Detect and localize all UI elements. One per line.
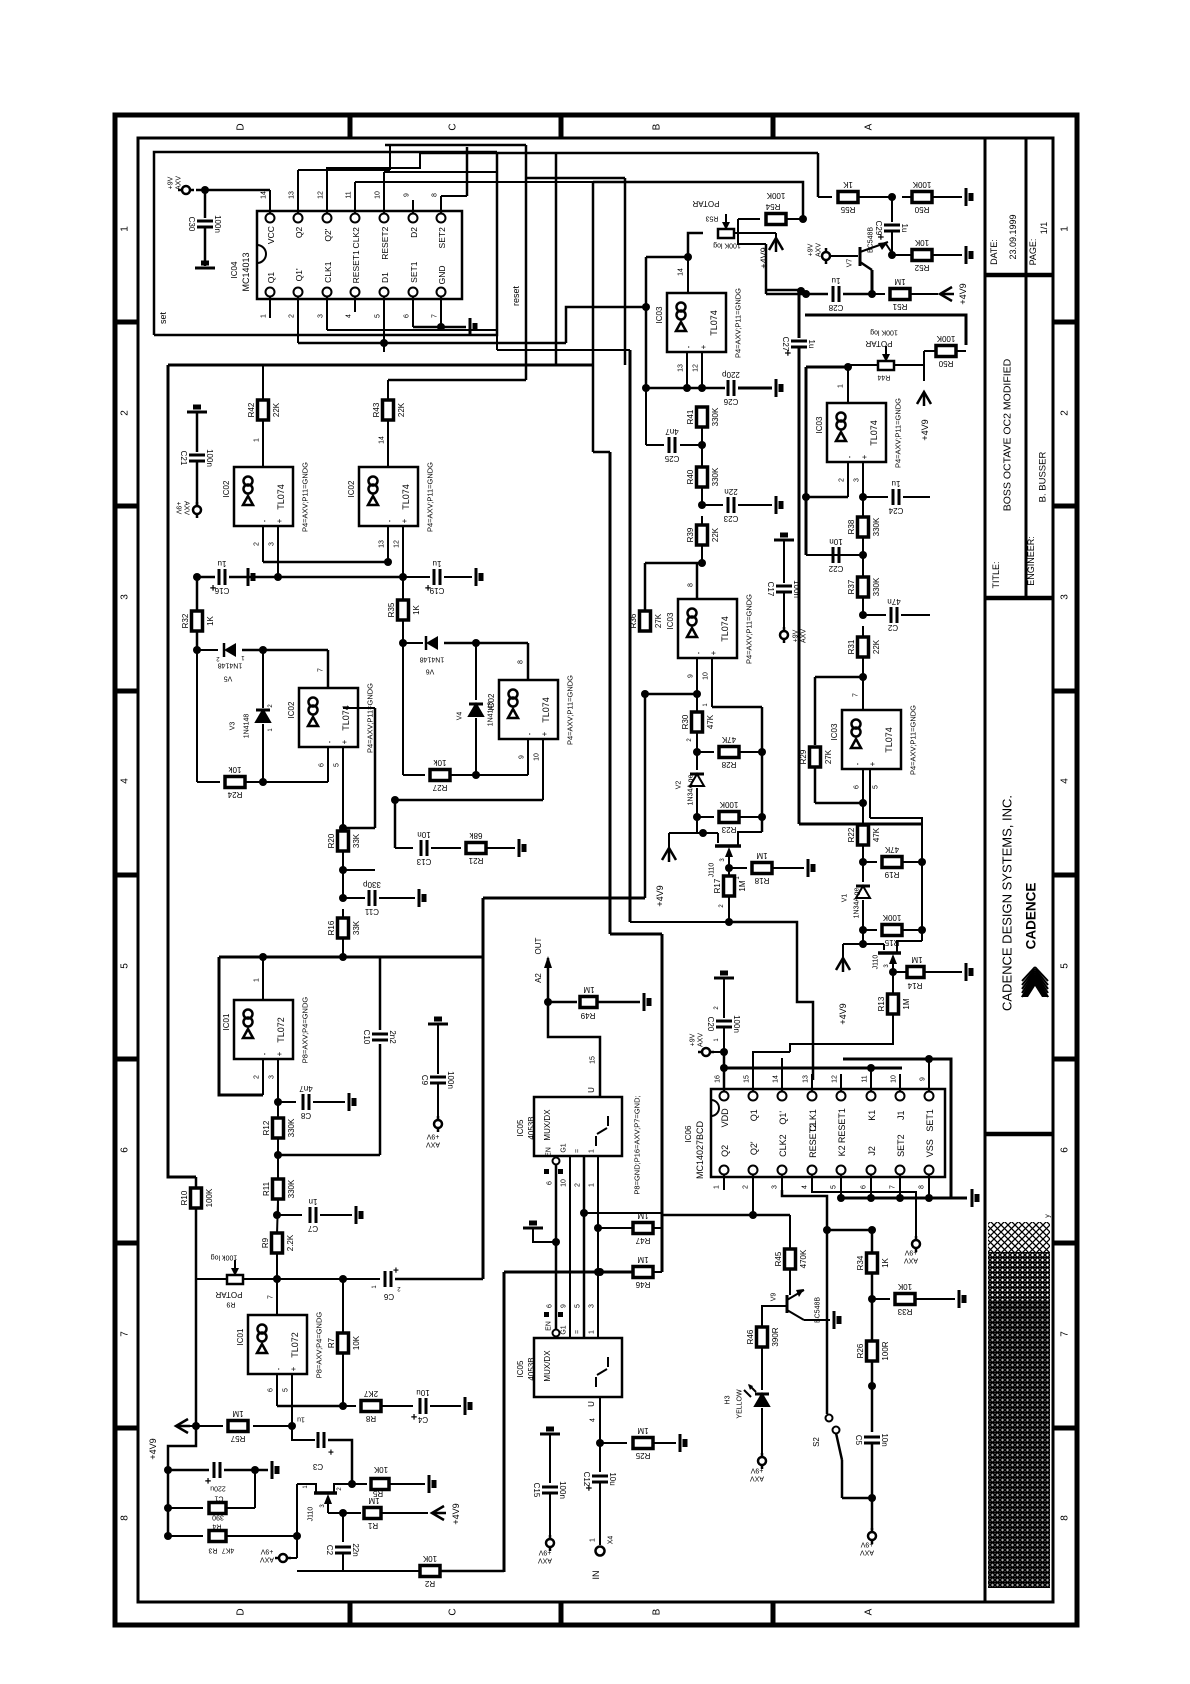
wire pin8 SET2 up: [440, 196, 442, 200]
op-amp IC02: [234, 467, 293, 526]
ground: [807, 859, 810, 877]
zone tick left: [115, 1241, 138, 1246]
svg-text:220p: 220p: [722, 370, 740, 379]
svg-text:1u: 1u: [218, 559, 227, 568]
svg-text:9: 9: [518, 755, 525, 759]
ground: [523, 1227, 543, 1230]
svg-text:CLK1: CLK1: [323, 261, 333, 283]
svg-text:+4V9: +4V9: [958, 283, 968, 304]
wire base V9 to R46: [762, 1306, 787, 1326]
svg-text:330K: 330K: [711, 407, 720, 426]
svg-text:2: 2: [253, 542, 260, 546]
svg-text:7: 7: [317, 668, 324, 672]
capacitor C23: [727, 497, 730, 513]
svg-text:6: 6: [546, 1304, 553, 1308]
capacitor C4: [419, 1398, 422, 1414]
svg-text:1M: 1M: [232, 1409, 243, 1418]
wire IC03c pin1: [847, 368, 849, 403]
svg-text:330K: 330K: [287, 1118, 296, 1137]
ground: [540, 1433, 560, 1436]
IC06 pin 3 CLK2: [778, 1166, 787, 1175]
svg-text:SET1: SET1: [925, 1109, 935, 1132]
svg-text:C8: C8: [300, 1111, 311, 1120]
svg-text:4K7: 4K7: [222, 1547, 235, 1554]
resistor R46: [633, 1267, 653, 1278]
svg-text:330p: 330p: [363, 880, 381, 889]
svg-text:R35: R35: [387, 602, 396, 617]
wire RESET2 to +9V: [812, 1190, 916, 1240]
wire J110b source to R14: [889, 968, 897, 976]
svg-text:+: +: [860, 454, 869, 459]
svg-text:6: 6: [267, 1388, 274, 1392]
svg-text:13: 13: [288, 191, 295, 199]
capacitor C16 node: [197, 576, 215, 579]
IC04 pin 8 SET2: [437, 214, 446, 223]
svg-text:4: 4: [801, 1185, 808, 1189]
svg-text:+9V: +9V: [260, 1548, 273, 1555]
svg-text:14: 14: [378, 436, 385, 444]
svg-text:TL074: TL074: [884, 727, 894, 753]
svg-text:6: 6: [546, 1181, 553, 1185]
wire pin3 CLK1 down: [326, 312, 328, 330]
svg-text:100K log: 100K log: [713, 242, 741, 249]
svg-text:Q2: Q2: [720, 1145, 730, 1157]
svg-text:10u: 10u: [608, 1472, 617, 1485]
ground: [518, 839, 521, 857]
svg-text:C24: C24: [888, 506, 903, 515]
IC02a pins 2 3: [262, 526, 264, 562]
svg-text:1K: 1K: [206, 615, 215, 625]
resistor R41: [697, 407, 708, 427]
svg-text:R57: R57: [230, 1434, 245, 1443]
op-amp IC02: [499, 680, 558, 739]
svg-text:DATE:: DATE:: [989, 239, 999, 265]
svg-text:RESET2: RESET2: [808, 1123, 818, 1158]
svg-text:22K: 22K: [397, 402, 406, 417]
svg-text:9: 9: [687, 674, 694, 678]
svg-text:BC548B: BC548B: [814, 1297, 821, 1323]
svg-text:1u: 1u: [297, 1416, 305, 1423]
svg-text:P4=AXV;P11=GNDG: P4=AXV;P11=GNDG: [734, 288, 743, 358]
resistor R11: [273, 1179, 284, 1199]
ground: [428, 1023, 448, 1026]
resistor R20: [338, 831, 349, 851]
power +9V under bus: [915, 1198, 917, 1240]
svg-text:6: 6: [853, 785, 860, 789]
wire IC03d pin7: [862, 677, 864, 710]
wire pin12 Q2' top link: [327, 153, 420, 200]
node rect1 top: [193, 646, 201, 654]
svg-text:R31: R31: [847, 639, 856, 654]
svg-text:R30: R30: [681, 714, 690, 729]
svg-text:1u: 1u: [900, 224, 909, 233]
svg-text:AXV: AXV: [697, 1033, 704, 1047]
svg-text:100R: 100R: [881, 1341, 890, 1360]
IC06 pin 6 J2: [867, 1166, 876, 1175]
capacitor C1: [213, 1462, 216, 1478]
svg-text:5: 5: [1060, 963, 1071, 969]
svg-text:C15: C15: [532, 1483, 541, 1498]
svg-text:+: +: [425, 581, 431, 593]
resistor R32: [192, 611, 203, 631]
ground: [679, 1434, 682, 1452]
diode: [690, 774, 704, 786]
wire to C13: [394, 800, 397, 848]
svg-text:C1: C1: [214, 1495, 223, 1502]
svg-text:1M: 1M: [637, 1426, 648, 1435]
resistor R31: [858, 637, 869, 657]
capacitor C11: [368, 890, 371, 906]
svg-text:330K: 330K: [872, 577, 881, 596]
svg-text:5: 5: [872, 785, 879, 789]
pot R53 network: [688, 233, 703, 257]
power +9V AXV: [915, 1236, 918, 1252]
resistor R7: [338, 1333, 349, 1353]
svg-text:+9V: +9V: [904, 1249, 917, 1256]
svg-text:YELLOW: YELLOW: [736, 1389, 743, 1419]
resistor R54 branch: [738, 218, 760, 220]
wire pin5 right: [870, 818, 922, 862]
zone tick bottom: [771, 1602, 776, 1625]
svg-text:1: 1: [253, 438, 260, 442]
svg-text:R20: R20: [327, 833, 336, 848]
svg-text:B. BUSSER: B. BUSSER: [1037, 452, 1048, 503]
resistor R20: [342, 828, 344, 830]
wire y388 chain: [646, 387, 725, 390]
IC04 pin 4 RESET1: [351, 288, 360, 297]
IC06 pin 16 VDD: [720, 1092, 729, 1101]
wire y957 bus: [219, 956, 483, 959]
svg-text:100n: 100n: [446, 1071, 455, 1089]
svg-text:C7: C7: [307, 1224, 318, 1233]
svg-text:+4V9: +4V9: [655, 885, 665, 906]
svg-text:CADENCE: CADENCE: [1024, 883, 1039, 950]
IC02c pins 6 5: [327, 747, 329, 782]
svg-text:9: 9: [403, 193, 410, 197]
svg-text:+9V: +9V: [860, 1541, 873, 1548]
svg-text:7: 7: [852, 693, 859, 697]
svg-text:8: 8: [431, 193, 438, 197]
resistor R50b: [965, 316, 968, 345]
svg-text:POTAR: POTAR: [215, 1290, 242, 1299]
svg-text:-: -: [525, 732, 534, 735]
diode V3 vertical: [262, 650, 264, 708]
svg-text:R42: R42: [247, 402, 256, 417]
power +4V9: [432, 1506, 444, 1520]
svg-text:13: 13: [378, 540, 385, 548]
svg-text:+9V: +9V: [538, 1549, 551, 1556]
svg-text:+: +: [400, 518, 409, 523]
svg-text:R25: R25: [635, 1451, 650, 1460]
svg-text:CLK2: CLK2: [351, 227, 361, 249]
svg-text:1M: 1M: [756, 851, 767, 860]
svg-text:330K: 330K: [287, 1179, 296, 1198]
ground: [469, 318, 472, 336]
resistor R45: [789, 1215, 791, 1248]
node C30 tap: [201, 186, 209, 194]
svg-text:2n2: 2n2: [388, 1030, 397, 1044]
svg-text:AXV: AXV: [860, 1549, 874, 1556]
svg-text:BC548B: BC548B: [867, 227, 874, 253]
svg-text:3: 3: [588, 1304, 595, 1308]
svg-text:G1: G1: [560, 1325, 567, 1334]
resistor R9: [272, 1233, 283, 1253]
wire y1272 bus: [504, 1271, 633, 1274]
capacitor C8: [302, 1094, 305, 1110]
wire pin2 node to C10 loop: [278, 1154, 380, 1157]
capacitor C24b branch: [859, 611, 867, 619]
svg-text:SET2: SET2: [437, 227, 447, 249]
resistor R30: [692, 712, 703, 732]
svg-text:AXV: AXV: [815, 243, 822, 257]
IC03d pins 6 5: [862, 769, 864, 803]
svg-text:R50: R50: [914, 205, 929, 214]
IC06 pin 1 Q2: [720, 1166, 729, 1175]
svg-text:P8=GND;P16=AXV;P7=GND;: P8=GND;P16=AXV;P7=GND;: [633, 1095, 642, 1194]
resistor R35 wire: [402, 577, 404, 599]
svg-text:12: 12: [692, 364, 699, 372]
diode: [755, 1394, 769, 1406]
svg-text:R54: R54: [765, 202, 780, 211]
svg-text:6: 6: [120, 1147, 131, 1153]
IC05b switch glyph: [595, 1377, 597, 1387]
svg-text:10n: 10n: [880, 1433, 889, 1446]
svg-text:R38: R38: [847, 519, 856, 534]
node C7 row: [273, 1211, 281, 1219]
svg-text:A: A: [864, 123, 875, 130]
svg-text:1: 1: [1060, 226, 1071, 232]
svg-text:10: 10: [533, 753, 540, 761]
capacitor C15: [542, 1486, 558, 1489]
svg-text:100K: 100K: [719, 800, 738, 809]
svg-text:10u: 10u: [416, 1388, 429, 1397]
svg-text:TITLE:: TITLE:: [991, 561, 1001, 588]
svg-text:1u: 1u: [892, 479, 901, 488]
svg-text:1: 1: [588, 1149, 595, 1153]
resistor R52: [912, 250, 932, 261]
svg-text:6: 6: [403, 314, 410, 318]
capacitor C21: [189, 454, 205, 457]
wire pot R44 net: [847, 365, 849, 368]
wire x556 vertical: [555, 153, 558, 365]
svg-text:5: 5: [120, 963, 131, 969]
svg-text:14: 14: [260, 191, 267, 199]
inner border frame: [138, 138, 1053, 1602]
switch S2: [826, 1415, 833, 1422]
svg-text:C10: C10: [362, 1030, 371, 1045]
IC04 pin 12 Q2': [323, 214, 332, 223]
svg-text:10K: 10K: [373, 1465, 388, 1474]
svg-text:R28: R28: [721, 760, 736, 769]
svg-text:SET1: SET1: [409, 261, 419, 283]
power +4V9: [917, 392, 931, 404]
svg-text:AXV: AXV: [260, 1556, 274, 1563]
svg-text:R39: R39: [686, 527, 695, 542]
svg-text:1M: 1M: [902, 998, 911, 1009]
svg-text:22K: 22K: [872, 639, 881, 654]
svg-text:C26: C26: [723, 397, 738, 406]
svg-text:10k: 10k: [433, 758, 447, 767]
wire y367 to IC03c: [806, 366, 848, 369]
svg-text:1: 1: [589, 1538, 596, 1542]
svg-text:P8=AXV;P4=GNDG: P8=AXV;P4=GNDG: [301, 997, 310, 1064]
svg-text:y: y: [1044, 1214, 1051, 1218]
svg-text:S2: S2: [812, 1437, 821, 1447]
svg-text:C23: C23: [723, 514, 738, 523]
ground: [428, 1475, 431, 1493]
capacitor C12: [592, 1475, 608, 1478]
ground: [971, 1189, 974, 1207]
wire pin11 CLK2 top link: [354, 182, 356, 200]
ground: [187, 411, 207, 414]
IC05b pins top: [544, 1312, 549, 1317]
svg-text:POTAR: POTAR: [692, 199, 719, 208]
svg-text:R36: R36: [629, 613, 638, 628]
JFET J110b: [859, 940, 867, 948]
svg-text:P4=AXV;P11=GNDG: P4=AXV;P11=GNDG: [745, 594, 754, 664]
zone tick left: [115, 873, 138, 878]
svg-text:C: C: [448, 1608, 459, 1615]
wire Q2' net y1215: [662, 1214, 753, 1217]
capacitor C22 branch: [862, 538, 864, 615]
svg-text:6: 6: [860, 1185, 867, 1189]
svg-text:1N4148: 1N4148: [420, 656, 445, 663]
IC04 pin 9 D2: [409, 214, 418, 223]
zone tick right: [1053, 320, 1077, 325]
wire C28 node to x799: [766, 289, 799, 292]
svg-text:3: 3: [1060, 594, 1071, 600]
node x646 y388: [642, 384, 650, 392]
svg-text:47K: 47K: [721, 735, 736, 744]
svg-text:TL074: TL074: [276, 484, 286, 510]
svg-text:4053B: 4053B: [527, 1357, 536, 1380]
svg-text:MC14027BCD: MC14027BCD: [695, 1120, 705, 1179]
svg-text:1N4148: 1N4148: [243, 714, 250, 739]
capacitor C10: [372, 1033, 388, 1036]
svg-text:C20: C20: [706, 1017, 715, 1032]
diode: [224, 643, 236, 657]
svg-text:-: -: [845, 455, 854, 458]
svg-text:R21: R21: [468, 856, 483, 865]
capacitor C13: [420, 840, 423, 856]
resistor R27 loop: [402, 643, 404, 775]
svg-text:1u: 1u: [433, 559, 442, 568]
potentiometer R44: [878, 361, 894, 370]
zone tick top: [348, 115, 353, 138]
wire x630 long vertical: [629, 350, 632, 922]
svg-text:R16: R16: [327, 920, 336, 935]
wire pin10 feedback: [712, 706, 762, 709]
svg-text:8: 8: [918, 1185, 925, 1189]
zone tick left: [115, 1426, 138, 1431]
ground: [965, 246, 968, 264]
svg-text:Q2': Q2': [749, 1141, 759, 1155]
resistor R15: [882, 925, 902, 936]
svg-text:6: 6: [1060, 1147, 1071, 1153]
svg-text:+9V: +9V: [807, 243, 814, 256]
capacitor C23 branch: [698, 501, 706, 509]
svg-text:3: 3: [268, 542, 275, 546]
svg-text:IC04: IC04: [230, 261, 239, 278]
wire x610 long vertical: [609, 452, 612, 934]
svg-text:reset: reset: [511, 286, 521, 307]
ground: [965, 963, 968, 981]
svg-text:C21: C21: [179, 451, 188, 466]
resistor R13: [888, 994, 899, 1014]
svg-text:390: 390: [212, 1514, 224, 1521]
svg-text:MC14013: MC14013: [241, 252, 251, 291]
op-amp IC03: [678, 599, 737, 658]
power +4V9: [836, 958, 850, 970]
svg-text:R49: R49: [580, 1011, 595, 1020]
svg-text:47n: 47n: [887, 597, 900, 606]
svg-text:7: 7: [1060, 1331, 1071, 1337]
ground: [958, 1290, 961, 1308]
IC05a pins: [553, 1158, 560, 1165]
resistor R24 loop: [196, 650, 198, 782]
resistor R18: [752, 863, 772, 874]
svg-text:V5: V5: [224, 675, 233, 682]
power +4V9: [176, 1419, 188, 1433]
IC05b 4053B body: [534, 1338, 622, 1397]
resistor R26: [871, 1299, 874, 1340]
wire y898 run: [483, 897, 645, 900]
svg-text:R50: R50: [938, 359, 953, 368]
wire out bus A2: [547, 958, 550, 1002]
svg-text:-: -: [325, 740, 334, 743]
svg-text:1N34A ge: 1N34A ge: [687, 775, 694, 806]
node R18 row: [725, 864, 733, 872]
svg-text:7: 7: [267, 1295, 274, 1299]
IC06 pin 13 CLK1: [808, 1092, 817, 1101]
zone tick top: [771, 115, 776, 138]
svg-text:IC02: IC02: [487, 693, 496, 710]
diode: [426, 636, 438, 650]
diode V2 germanium: [696, 752, 698, 770]
svg-text:IC01: IC01: [236, 1328, 245, 1345]
capacitor C5: [864, 1436, 880, 1439]
svg-text:2: 2: [838, 478, 845, 482]
wire R42 to IC02 pin1: [262, 421, 264, 467]
wire R43 to IC02b pin14: [387, 421, 389, 467]
ground: [195, 267, 215, 270]
svg-text:10k: 10k: [228, 765, 242, 774]
IC06 pin 2 Q2': [749, 1166, 758, 1175]
node pin3 C8: [274, 1098, 282, 1106]
ground: [965, 188, 968, 206]
svg-text:27K: 27K: [824, 749, 833, 764]
svg-text:15: 15: [589, 1056, 596, 1064]
capacitor C29: [884, 224, 900, 227]
svg-text:TL074: TL074: [709, 310, 719, 336]
capacitor C10 loop: [379, 1044, 382, 1155]
capacitor C21 wire: [196, 412, 199, 452]
svg-text:R13: R13: [877, 996, 886, 1011]
svg-text:10n: 10n: [829, 537, 842, 546]
IC02b pins 13 12: [387, 526, 389, 562]
svg-text:D: D: [236, 123, 247, 130]
svg-text:CLK2: CLK2: [778, 1134, 788, 1157]
svg-text:R26: R26: [856, 1343, 865, 1358]
feedback box IC01a: [219, 957, 263, 1095]
svg-text:IC03: IC03: [830, 723, 839, 740]
svg-text:VSS: VSS: [925, 1139, 935, 1157]
svg-text:1M: 1M: [637, 1255, 648, 1264]
resistor R50: [912, 192, 932, 203]
svg-text:68k: 68k: [469, 831, 483, 840]
capacitor C6: [384, 1271, 387, 1287]
svg-text:R53: R53: [705, 215, 718, 222]
